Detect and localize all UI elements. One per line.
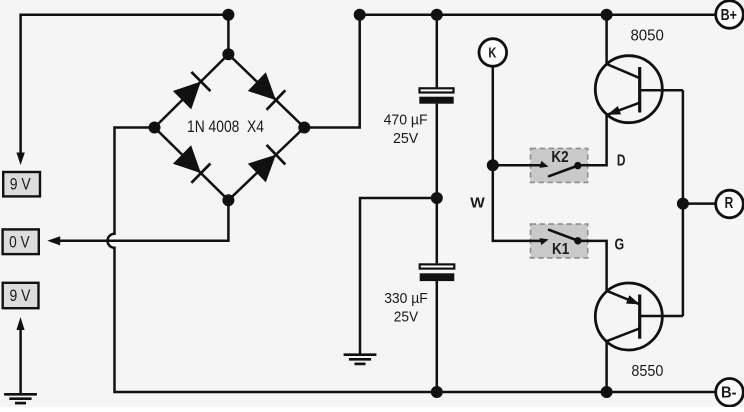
svg-text:G: G [615,237,625,254]
svg-text:K: K [488,45,496,62]
svg-text:8050: 8050 [630,28,664,45]
svg-text:D: D [617,153,626,170]
svg-text:330 µF: 330 µF [384,290,428,307]
svg-text:470 µF: 470 µF [384,112,428,129]
svg-text:B+: B+ [721,7,737,24]
svg-text:25V: 25V [393,130,418,147]
svg-text:9 V: 9 V [10,175,32,194]
svg-text:B-: B- [721,385,737,402]
svg-text:K2: K2 [551,149,568,166]
svg-text:25V: 25V [394,308,418,325]
svg-text:K1: K1 [552,241,570,258]
svg-text:0 V: 0 V [9,233,30,252]
svg-text:R: R [725,195,734,212]
svg-text:W: W [470,195,485,212]
svg-text:1N 4008 X4: 1N 4008 X4 [187,117,264,136]
svg-text:9 V: 9 V [10,286,32,305]
svg-text:8550: 8550 [631,363,663,380]
